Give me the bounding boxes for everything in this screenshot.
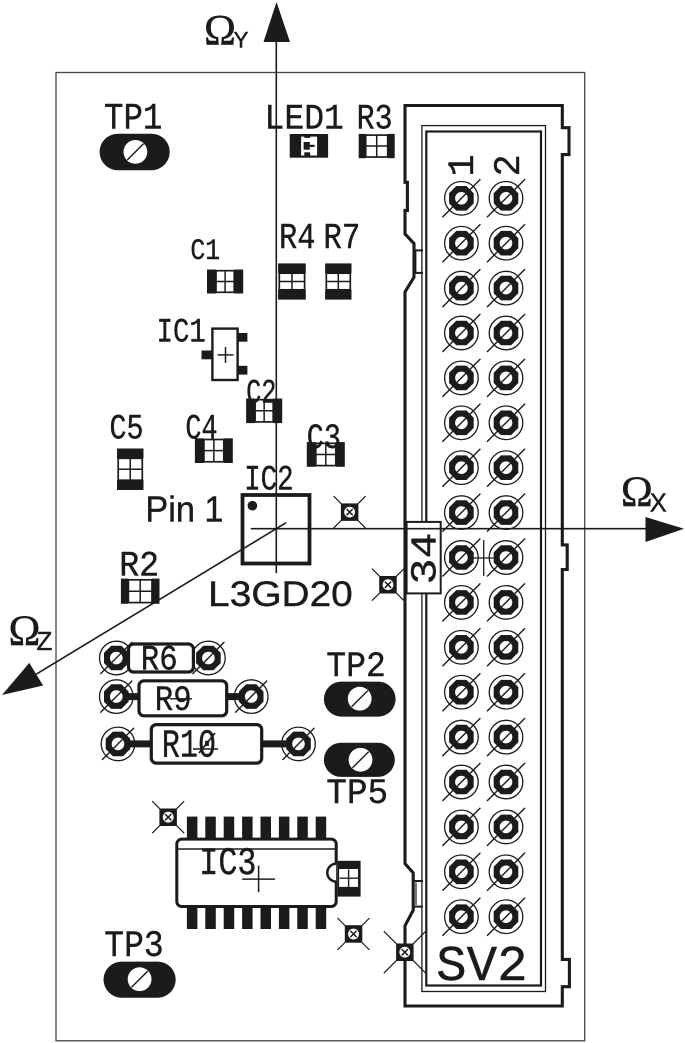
connector SV2 pin 13 (left column)	[442, 449, 480, 487]
resistor R4 body	[278, 263, 306, 299]
svg-text:34: 34	[405, 533, 446, 585]
svg-text:Y: Y	[234, 27, 249, 52]
connector SV2 pin 14 (right column)	[487, 449, 525, 487]
svg-text:L3GD20: L3GD20	[208, 575, 353, 614]
connector SV2 pin 1 (left column)	[442, 179, 480, 217]
connector SV2 pin 6 (right column)	[487, 269, 525, 307]
svg-text:Ω: Ω	[621, 469, 653, 516]
svg-text:C5: C5	[110, 409, 144, 449]
connector SV2 outer silkscreen outline	[405, 106, 569, 1007]
omega-X axis label	[621, 469, 667, 518]
svg-text:R4: R4	[279, 218, 316, 259]
connector SV2 pin 19 (left column)	[442, 583, 480, 621]
connector SV2 pin 4 (right column)	[487, 224, 525, 262]
pin 34 marker box	[407, 522, 441, 594]
connector SV2 pin 11 (left column)	[442, 404, 480, 442]
resistor R9 wires	[116, 693, 251, 700]
IC IC2 body	[243, 495, 310, 564]
resistor R2 body	[121, 579, 160, 604]
LED LED1 body	[290, 134, 328, 158]
connector SV2 pin 30 (right column)	[487, 808, 525, 846]
connector SV2 pin 28 (right column)	[487, 763, 525, 801]
svg-text:LED1: LED1	[265, 100, 344, 140]
connector SV2 pin 31 (left column)	[442, 853, 480, 891]
resistor R10 right pad	[282, 727, 316, 761]
PCB board outline	[56, 73, 585, 1041]
omega-Z axis label	[9, 608, 53, 656]
svg-text:Z: Z	[37, 626, 53, 656]
capacitor right of IC3	[338, 861, 361, 897]
resistor R3 body	[359, 134, 395, 158]
capacitor C2 body	[246, 399, 282, 424]
IC IC3 body	[177, 839, 336, 906]
connector SV2 pin 12 (right column)	[487, 404, 525, 442]
svg-text:SV2: SV2	[436, 939, 528, 996]
resistor R10 body	[151, 725, 261, 764]
via marker at SV2 lower left	[384, 931, 426, 973]
via marker right of IC2	[334, 496, 366, 528]
test point TP3 pad	[104, 962, 176, 998]
svg-text:IC1: IC1	[157, 314, 206, 353]
connector SV2 pin 18 (right column)	[487, 539, 525, 577]
IC IC3 top pins	[187, 817, 326, 840]
test point TP2 pad	[324, 682, 396, 717]
connector SV2 origin crosshair	[469, 540, 499, 576]
IC IC3 bottom pins	[187, 907, 326, 930]
resistor R10 zero slash	[199, 733, 215, 753]
omega-X axis line	[251, 528, 650, 530]
connector SV2 pin 15 (left column)	[442, 494, 480, 532]
capacitor C1 body	[207, 270, 243, 294]
via marker below IC2	[372, 569, 404, 601]
resistor R10 wires	[118, 740, 299, 747]
connector SV2 pin 2 (right column)	[487, 179, 525, 217]
omega-Y axis arrowhead	[264, 2, 291, 42]
connector SV2 pin 25 (left column)	[442, 718, 480, 756]
IC IC3 notch arc	[327, 864, 336, 882]
connector SV2 pin 17 (left column)	[442, 539, 480, 577]
connector SV2 pin 10 (right column)	[487, 359, 525, 397]
resistor R10 strike line	[193, 748, 218, 750]
resistor R9 strike line	[170, 698, 192, 700]
connector SV2 pin 32 (right column)	[487, 853, 525, 891]
omega-Z axis line	[36, 523, 286, 675]
capacitor C3 body	[307, 442, 345, 467]
resistor R6 left pad	[100, 641, 134, 675]
svg-text:TP5: TP5	[326, 774, 388, 814]
connector SV2 pin 27 (left column)	[442, 763, 480, 801]
connector SV2 top key slot	[413, 250, 423, 273]
via marker above IC3	[152, 801, 184, 833]
connector SV2 pin 16 (right column)	[487, 494, 525, 532]
connector SV2 pin 3 (left column)	[442, 224, 480, 262]
connector SV2 pin 9 (left column)	[442, 359, 480, 397]
connector SV2 bottom key slot	[413, 881, 423, 907]
connector SV2 pin 22 (right column)	[487, 628, 525, 666]
capacitor C4 body	[195, 438, 233, 463]
svg-text:X: X	[650, 489, 667, 517]
svg-text:Ω: Ω	[204, 8, 236, 55]
resistor R9 right pad	[234, 680, 268, 714]
via marker below IC3	[338, 918, 370, 950]
IC IC1 body	[202, 329, 248, 380]
svg-text:R9: R9	[155, 681, 192, 721]
omega-X axis arrowhead	[646, 517, 685, 542]
IC2 pin 1 dot	[248, 501, 258, 511]
connector SV2 pin 26 (right column)	[487, 718, 525, 756]
svg-text:R10: R10	[162, 725, 216, 770]
svg-text:2: 2	[489, 154, 531, 176]
connector SV2 pin 29 (left column)	[442, 808, 480, 846]
svg-text:R6: R6	[141, 641, 178, 681]
omega-Y axis label	[204, 8, 249, 55]
resistor R6 right pad	[192, 641, 226, 675]
svg-text:Pin 1: Pin 1	[145, 489, 223, 530]
svg-text:C1: C1	[190, 235, 220, 269]
resistor R7 body	[325, 263, 351, 299]
svg-text:TP2: TP2	[326, 647, 386, 687]
connector SV2 pin 7 (left column)	[442, 314, 480, 352]
connector SV2 pin 24 (right column)	[487, 673, 525, 711]
connector SV2 pin 33 (left column)	[442, 898, 480, 936]
connector SV2 pin 5 (left column)	[442, 269, 480, 307]
svg-text:1: 1	[443, 154, 485, 176]
svg-text:R3: R3	[357, 100, 393, 140]
IC IC3 origin cross	[242, 866, 275, 893]
capacitor C5 body	[117, 449, 144, 491]
resistor R6 body	[129, 644, 194, 672]
resistor R9 body	[139, 681, 227, 716]
connector SV2 pin 8 (right column)	[487, 314, 525, 352]
omega-Y axis line	[275, 40, 277, 573]
connector SV2 pin 21 (left column)	[442, 628, 480, 666]
connector SV2 pin 20 (right column)	[487, 583, 525, 621]
connector SV2 inner outline (outer thin rect)	[422, 126, 546, 992]
resistor R9 left pad	[100, 680, 134, 714]
connector SV2 pin 23 (left column)	[442, 673, 480, 711]
connector SV2 inner outline (inner thick rect)	[426, 132, 541, 986]
omega-Z axis arrowhead	[2, 663, 43, 695]
test point TP5 pad	[324, 743, 395, 777]
test point TP1 pad	[100, 134, 170, 171]
connector SV2 pin 34 (right column)	[487, 898, 525, 936]
resistor R10 left pad	[101, 727, 135, 761]
svg-text:R7: R7	[323, 218, 360, 259]
